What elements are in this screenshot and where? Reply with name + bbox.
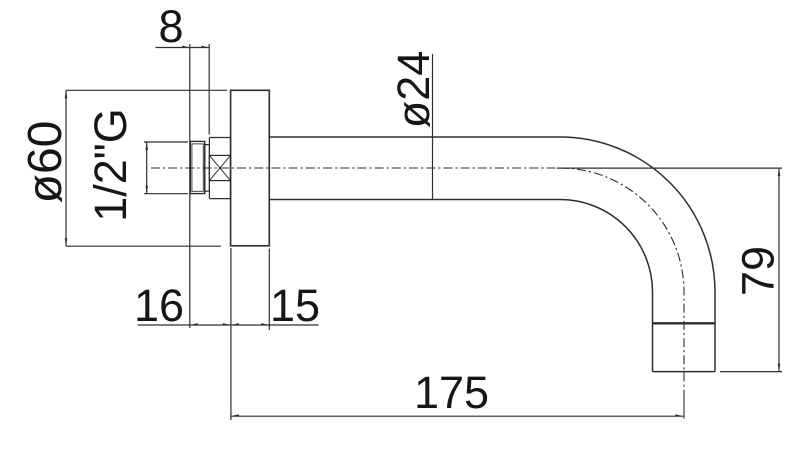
dim 175 dimension line xyxy=(231,415,683,417)
dim 1/2G dimension line xyxy=(146,142,148,194)
dim 8 arrow right xyxy=(201,46,209,48)
flange xyxy=(231,90,270,246)
outlet bottom edge xyxy=(653,371,716,373)
svg-text:1/2"G: 1/2"G xyxy=(85,108,136,222)
dim 79 top extension line xyxy=(557,167,782,169)
stub right wall xyxy=(230,138,232,199)
X-box thread symbol xyxy=(209,155,230,180)
svg-text:ø24: ø24 xyxy=(388,51,439,129)
nipple thread outer rect xyxy=(190,141,204,193)
dim 1/2G bottom extension line xyxy=(144,193,188,195)
nipple thread inner lines xyxy=(192,144,203,191)
dim 1/2G top extension line xyxy=(144,141,188,143)
svg-text:15: 15 xyxy=(270,280,320,331)
svg-text:16: 16 xyxy=(134,280,184,331)
X-box diagonal 1 xyxy=(209,155,230,180)
nipple collar xyxy=(205,145,210,192)
dim 79 arrow bottom xyxy=(778,364,781,372)
dim 15 arrow right xyxy=(261,323,269,325)
centerline horizontal xyxy=(151,167,557,169)
dim 8 extension line right xyxy=(208,44,210,135)
flange-right lower extension line xyxy=(268,249,270,331)
flange-left lower extension line xyxy=(230,248,232,420)
dim ø60 arrow top xyxy=(65,90,68,98)
stub left wall xyxy=(208,138,210,199)
dim ø60 bottom extension line xyxy=(66,245,221,247)
svg-text:79: 79 xyxy=(733,246,784,296)
dim 175 arrow left xyxy=(231,414,239,416)
dim 175 arrow right xyxy=(675,414,683,416)
dim 8 extension line left (wall line) xyxy=(189,44,191,328)
dim 16/15 arrows middle xyxy=(223,323,239,325)
svg-text:ø60: ø60 xyxy=(19,121,72,204)
spout tube outer wall (top) with bend xyxy=(269,137,715,372)
centerline bend and vertical xyxy=(560,168,684,398)
dim 8 dimension line xyxy=(156,47,210,49)
svg-text:8: 8 xyxy=(158,1,183,52)
X-box diagonal 2 xyxy=(209,155,230,180)
dim 79 bottom extension line xyxy=(720,371,782,373)
stub bottom line xyxy=(209,198,230,200)
dim ø24 extension line xyxy=(432,54,434,200)
dim ø60 dimension line xyxy=(65,90,67,246)
dim 1/2G arrow top xyxy=(145,142,148,150)
stub top line xyxy=(209,137,230,139)
spout tube inner wall (bottom) with bend xyxy=(269,200,652,372)
svg-text:175: 175 xyxy=(414,367,489,418)
dim 79 arrow top xyxy=(778,168,781,176)
centerline lower solid segment xyxy=(683,398,685,419)
dim 16 arrow left xyxy=(190,323,198,325)
dim ø60 top extension line xyxy=(66,89,227,91)
dim ø60 arrow bottom xyxy=(65,238,68,246)
dim 8 arrow left xyxy=(182,46,190,48)
outlet aerator band xyxy=(653,322,716,324)
dim 1/2G arrow bottom xyxy=(145,186,148,194)
dim 79 dimension line xyxy=(778,168,780,372)
dim 16/15 dimension line xyxy=(138,324,319,326)
